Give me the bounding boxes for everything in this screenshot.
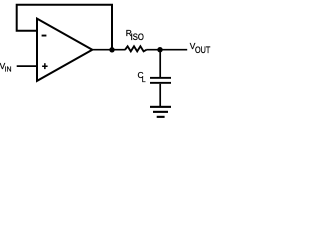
capacitor CL bbox=[150, 77, 171, 79]
op-amp inverting input marker (-) bbox=[42, 35, 47, 37]
ground bbox=[150, 106, 171, 108]
wire capacitor to ground bbox=[159, 84, 161, 106]
svg-text:ISO: ISO bbox=[131, 33, 145, 43]
wire junction down to capacitor bbox=[159, 50, 161, 77]
node junction at op-amp output bbox=[109, 47, 114, 52]
op-amp U1 bbox=[37, 19, 92, 81]
svg-text:OUT: OUT bbox=[195, 44, 210, 55]
op-amp non-inverting input marker (+) bbox=[42, 66, 48, 68]
node junction at capacitor tap bbox=[157, 47, 162, 52]
svg-text:IN: IN bbox=[5, 67, 12, 74]
resistor RISO bbox=[125, 46, 147, 51]
wire VIN to non-inverting input bbox=[17, 65, 37, 67]
svg-text:L: L bbox=[142, 77, 146, 84]
wire op-amp output to resistor bbox=[92, 49, 126, 51]
wire feedback loop (output to inverting input) bbox=[17, 5, 112, 50]
wire resistor to VOUT bbox=[147, 49, 187, 51]
